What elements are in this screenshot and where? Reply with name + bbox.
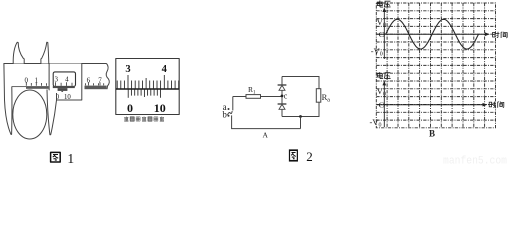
top 电压 label (377, 1, 383, 8)
caliper beam (main bar) (4, 63, 107, 65)
beam wavy right break end (106, 64, 109, 90)
resistor R1 (246, 95, 261, 99)
diode D2 cathode bar (278, 103, 287, 105)
lower left fixed jaw (4, 63, 12, 134)
magnified main scale mm ticks (117, 75, 179, 89)
node c dot (281, 95, 284, 98)
diode chain vertical wire (281, 77, 283, 117)
svg-text:c: c (284, 91, 288, 100)
main scale ticks (6-7 section) (86, 82, 104, 85)
svg-text:4: 4 (162, 64, 168, 75)
svg-text:R1: R1 (248, 85, 256, 96)
bottom 时间 label (489, 102, 496, 108)
vernier notch (61, 91, 63, 92)
svg-text:B: B (429, 129, 435, 139)
caption 游标部分放大图 (pseudo glyphs) (124, 116, 164, 121)
wire a to R1 (233, 96, 246, 98)
svg-text:1: 1 (67, 151, 74, 165)
svg-text:O: O (379, 101, 386, 109)
grid horizontal lines (376, 11, 495, 120)
diode D1 cathode bar (278, 84, 287, 86)
caption 图 2 (289, 150, 297, 161)
top graph y-axis (383, 10, 385, 60)
svg-text:O: O (379, 31, 386, 39)
wire junction down (300, 117, 302, 129)
lower right jaw (slider) (47, 90, 57, 135)
svg-text:Ra: Ra (322, 92, 331, 104)
beam bottom shaded band (left of slider) (26, 86, 49, 89)
magnified separator line (116, 88, 179, 90)
svg-text:0: 0 (127, 101, 133, 115)
bottom graph x-axis (377, 104, 485, 106)
magnified vernier ticks (128, 89, 160, 98)
svg-text:10: 10 (64, 94, 71, 101)
grid box border (376, 3, 495, 128)
wire R1 to node c (261, 96, 283, 98)
AC tilde (227, 111, 232, 115)
grid vertical lines (387, 3, 485, 128)
beam bottom shaded band (right of slider) (85, 86, 107, 90)
bottom wire b (232, 115, 301, 128)
svg-text:b: b (222, 110, 227, 120)
svg-text:3: 3 (54, 75, 58, 83)
terminal b dot (228, 115, 230, 117)
top graph sine wave (386, 19, 479, 49)
highlight box around reading (3 4 window) (53, 72, 75, 87)
diode D2 triangle (279, 104, 285, 109)
svg-text:-V0: -V0 (371, 46, 383, 58)
terminal wire from a corner (232, 97, 234, 111)
caption 图 1 (51, 152, 61, 162)
svg-text:2: 2 (306, 149, 313, 164)
magnified view box (116, 59, 179, 115)
box bottom dark bar (53, 86, 75, 88)
vernier plate (58, 88, 68, 91)
svg-text:10: 10 (154, 101, 166, 115)
svg-text:A: A (262, 131, 268, 140)
bottom 电压 label (377, 72, 383, 79)
diode D1 triangle (279, 85, 285, 90)
slider body (49, 64, 82, 101)
top graph x-axis (377, 33, 488, 35)
window ticks (56, 82, 72, 86)
left loop rectangle top/right/bottom (282, 77, 319, 117)
top 时间 label (493, 32, 500, 38)
terminal a dot (228, 108, 230, 110)
measured sphere (circle) (13, 90, 47, 139)
main scale ticks (0-1 section) (26, 82, 46, 86)
beam bottom edge left thin segment (12, 86, 26, 88)
bottom graph y-axis (383, 83, 385, 127)
upper right prong (slider internal jaw) (41, 42, 49, 63)
upper left prong (fixed internal jaw) (13, 42, 24, 63)
svg-text:4: 4 (65, 75, 69, 83)
svg-text:-V0: -V0 (370, 117, 382, 129)
svg-text:manfen5.com: manfen5.com (443, 156, 507, 166)
resistor Ra (316, 89, 321, 103)
svg-text:3: 3 (125, 64, 130, 75)
junction dot bottom (299, 115, 302, 118)
